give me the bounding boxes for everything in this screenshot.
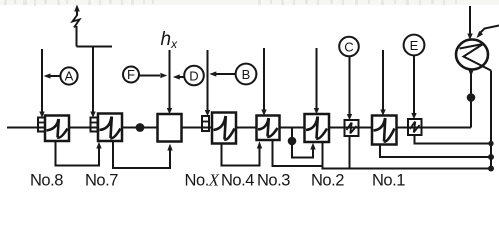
svg-text:No.2: No.2	[311, 172, 344, 190]
wire main line No.2 to No.1	[329, 127, 372, 129]
svg-text:B: B	[242, 67, 251, 82]
label C (circled, on line into drain cooler C)	[339, 37, 359, 57]
wire drain No.4 to No.3 (up arrow into No.3)	[222, 141, 263, 165]
label B (circled, arrow pointing left at No.4 extraction line)	[209, 64, 256, 85]
drain cooler C (small box)	[345, 120, 359, 136]
svg-text:hx: hx	[161, 29, 179, 51]
svg-text:D: D	[189, 68, 198, 83]
pump drain (filled dot on branch)	[288, 137, 297, 146]
label F (circled, arrow pointing right at h_x line)	[123, 67, 167, 83]
wire main line No.3 to No.2	[280, 127, 305, 129]
node junction No.1 drain	[488, 154, 494, 160]
boiler feed riser with break symbol and up arrow	[73, 5, 113, 47]
node junction E-drain	[488, 141, 493, 146]
valve V7 (before heater No.7)	[91, 118, 98, 132]
svg-text:F: F	[127, 67, 135, 82]
wire main line No.1 to condenser riser	[397, 70, 472, 128]
wire extraction line A (into No.8 valve)	[39, 49, 44, 118]
wire drain from cooler C down to long drain line	[349, 136, 351, 169]
label A (circled, arrow pointing left at line)	[44, 67, 78, 84]
heater No.1	[372, 116, 397, 145]
wire main line No.8 to No.7	[69, 127, 98, 129]
heater No.4	[212, 113, 236, 144]
wire main line No.7 to No.X	[122, 127, 158, 129]
heater No.2	[305, 114, 330, 142]
pump feedwater (filled dot on main line)	[136, 123, 145, 132]
wire extraction line into No.4 valve	[205, 50, 210, 116]
heater No.7	[98, 114, 122, 142]
wire main condensate line (left of No.8)	[7, 127, 45, 129]
wire drain No.3 (to No.2 drain line)	[273, 140, 323, 166]
svg-text:C: C	[344, 39, 353, 54]
wire drain collector to condenser	[490, 71, 492, 169]
pump condensate (filled dot under condenser)	[467, 93, 476, 102]
heater No.X (empty box)	[158, 114, 182, 142]
drain cooler E (small box)	[408, 119, 422, 135]
svg-text:No.1: No.1	[372, 172, 405, 190]
wire main line No.X to No.4	[182, 127, 213, 129]
svg-text:E: E	[410, 38, 419, 53]
node junction long drain line	[488, 166, 494, 172]
wire main line No.4 to No.3	[236, 127, 257, 129]
wire drain No.8 to No.7 (up arrow into No.7)	[56, 141, 102, 166]
label E (circled, on line into drain cooler E)	[404, 35, 425, 56]
condenser (circle with tube zigzag)	[456, 40, 491, 71]
svg-text:No.8: No.8	[30, 172, 63, 190]
wire turbine exhaust into condenser	[467, 6, 472, 40]
wire extraction line into No.7 valve	[90, 47, 95, 118]
valve V8 (before heater No.8)	[38, 118, 45, 132]
wire drain-pump branch from main line up into No.2	[292, 129, 316, 158]
wire line E into cooler box	[411, 55, 416, 119]
wire extraction line h_x into No.X	[167, 50, 172, 114]
label D (circled, arrow pointing left at h_x line)	[173, 66, 204, 86]
wire extraction line into No.3	[261, 48, 266, 116]
wire extraction line into No.2	[314, 48, 319, 114]
svg-text:No.X: No.X	[185, 171, 220, 190]
wire cooling water inlet (arrow into condenser top-right)	[477, 26, 499, 39]
wire extraction line into No.1	[380, 50, 385, 116]
valve V4 (before heater No.4)	[202, 116, 209, 131]
wire line C into cooler box	[347, 56, 352, 120]
wire drain No.7 to No.X (up arrow into No.X)	[113, 141, 173, 168]
wire drain from cooler E to condenser collector	[415, 135, 492, 144]
svg-text:No.4: No.4	[221, 172, 254, 190]
svg-text:No.3: No.3	[257, 172, 290, 190]
wire drain No.1 to condenser collector	[380, 145, 491, 158]
heater No.8	[45, 116, 69, 142]
arrow condensate out of condenser	[468, 70, 473, 77]
svg-text:No.7: No.7	[85, 172, 118, 190]
heater No.3	[257, 116, 280, 141]
wire drain No.2 (long line to condenser collector)	[323, 142, 492, 169]
svg-text:A: A	[65, 69, 74, 84]
